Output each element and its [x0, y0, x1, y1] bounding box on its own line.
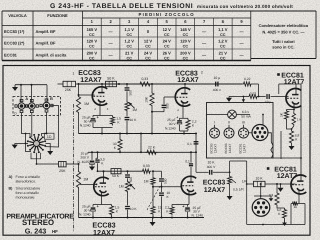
capacitor 10uF 200V ch2 — [77, 152, 98, 171]
wire selector output — [36, 163, 59, 165]
label socket III — [238, 143, 246, 153]
capacitor 25uF 30V V2 — [165, 116, 182, 131]
wire box B+ link — [273, 157, 302, 159]
schematic frame — [3, 66, 310, 236]
resistor level 0.5 ch2 — [228, 175, 245, 191]
col127 ch2 cap500 — [125, 171, 133, 182]
wire plate V2 — [184, 83, 186, 88]
wire cathode V1 bottom — [93, 128, 113, 134]
resistor 6.8K ch2 — [277, 208, 287, 220]
resistor 2.2K V4 — [165, 205, 174, 216]
wire cathode V1 — [93, 105, 113, 116]
wire heater right — [280, 131, 282, 159]
resistor 1M ch2 leak — [144, 171, 155, 186]
resistor 1.5K V3 — [109, 205, 119, 217]
capacitor 10K ch2 — [125, 207, 137, 218]
ground input bus — [12, 85, 18, 91]
resistor 1M grid V3 — [76, 163, 88, 189]
wire switch lower web — [31, 153, 41, 159]
connector J1 — [15, 99, 28, 112]
resistor 0.33 ch1 — [139, 77, 152, 86]
tube V4 triode ECC83d — [181, 176, 196, 194]
capacitor 0.1 x196 — [187, 133, 198, 153]
wire J3 to switch — [42, 112, 48, 136]
wire grid bus V6 — [247, 183, 254, 185]
capacitor 10K out ch2 — [159, 187, 170, 218]
wire 10K to coupling — [151, 111, 164, 113]
resistor 10K plate V2 — [144, 84, 154, 107]
label V1 ECC83 12AX7 — [73, 70, 102, 84]
table grid — [2, 11, 316, 61]
label 1R out — [242, 179, 248, 183]
resistor 25K input 1 — [58, 81, 76, 92]
wire coupling corner ch2 — [153, 171, 162, 178]
resistor 10K grid V6 — [254, 177, 266, 187]
wire 1M V1 down — [78, 114, 80, 134]
resistor 50K plate V3 — [111, 169, 121, 178]
resistor 0.22 ch1 a — [242, 77, 252, 86]
resistor 0.22 ch1 b — [248, 91, 259, 98]
label 1D — [45, 133, 55, 139]
node bus x152 — [151, 83, 153, 85]
capacitor 10u coupling V5 — [265, 94, 271, 104]
wire x141 corner — [140, 133, 142, 153]
tube V5 triode ECC81a — [286, 89, 301, 108]
wire grid V4 — [153, 186, 182, 188]
tube V2 triode ECC83b — [175, 88, 190, 112]
wire 1k down loop — [290, 204, 292, 225]
wire right vertical supply — [300, 84, 302, 175]
resistor 33K decoupling — [113, 134, 122, 153]
wire DIN drop — [254, 184, 273, 201]
table data rows — [4, 27, 244, 61]
ground mid right — [278, 184, 284, 192]
capacitor 500 ch1 — [125, 88, 133, 96]
octal power socket — [252, 125, 268, 141]
resistor 1k cath V6 — [291, 201, 299, 209]
rotary switch S1 — [27, 134, 46, 153]
connector J2 — [25, 99, 38, 112]
ground bus lower — [79, 217, 205, 219]
socket I — [210, 121, 220, 138]
wire loop right — [299, 204, 305, 225]
label V4 ECC83 12AX7 — [203, 179, 231, 194]
resistor 22K ch2 — [146, 145, 158, 154]
wire loop bottom — [247, 224, 305, 226]
wire col127 b — [126, 112, 128, 116]
wire 25K to grid node — [76, 83, 80, 95]
wire selector output b — [66, 163, 78, 165]
tube V1 triode ECC83a — [92, 87, 108, 111]
wire J3 right branch — [46, 106, 59, 148]
capacitor 500 coupling ch2 — [159, 178, 167, 186]
ground level res — [227, 186, 233, 201]
wire bus corner right — [253, 84, 259, 97]
ground 6.8K ch2 — [282, 220, 287, 227]
note B — [9, 187, 41, 200]
potentiometer gang dashed — [147, 186, 160, 210]
label V2 ECC83 12AX7 — [175, 71, 203, 85]
wire drop to connector A — [20, 85, 22, 102]
title PREAMPLIFICATORE — [6, 213, 74, 220]
label D input — [14, 112, 17, 116]
wire plate V4 up — [185, 152, 193, 176]
wire 10K down — [151, 107, 153, 134]
wire heater feed arrow — [242, 97, 245, 103]
capacitor 25uF 30V V3 — [79, 203, 100, 217]
wire plate drop left — [278, 84, 280, 94]
resistor 0.33 ch2 — [141, 164, 151, 173]
node input 2 — [31, 84, 33, 86]
socket III — [239, 121, 249, 138]
wire cathode V2 — [180, 107, 189, 119]
wire out ch2 b — [213, 171, 230, 173]
label V5 ECC81 12AT7 — [277, 72, 304, 86]
wire cathode V4 — [172, 195, 189, 205]
shield dash-dot line — [73, 104, 75, 232]
node input 1 — [20, 84, 22, 86]
lamp 6.3V 50mA — [228, 110, 237, 119]
wire J1 to switch — [22, 113, 31, 136]
power cable squiggle — [268, 133, 273, 158]
resistor 1K b V5 — [292, 110, 301, 126]
wire out left vertical — [246, 161, 248, 225]
node x153 ch2 — [152, 170, 154, 172]
node bus x127 — [126, 83, 128, 85]
wire 1M V3 down — [78, 189, 80, 218]
connector J3 — [40, 99, 53, 112]
potentiometer 1M volume ch1 — [125, 101, 137, 113]
capacitor 25uF 50V V1 — [80, 114, 100, 127]
wire x196 down — [195, 151, 197, 172]
note A — [9, 175, 40, 184]
wire 10K V6 to grid — [260, 183, 296, 185]
capacitor 25uF 30V V4 — [182, 205, 203, 218]
wire out top link — [230, 160, 247, 162]
resistor 15K ch2 — [151, 205, 162, 215]
tube V6 triode ECC81b — [291, 175, 306, 194]
wire lamp right — [236, 114, 250, 116]
label socket I — [209, 143, 217, 153]
wire lamp left — [207, 114, 228, 116]
label V3 ECC83 12AX7 — [92, 220, 115, 236]
capacitor 10uF 400V — [213, 76, 221, 92]
label B — [50, 97, 53, 101]
wire lamp to octal top — [262, 114, 264, 125]
resistor 6.8K ch1 — [289, 130, 299, 145]
ground switch right — [47, 151, 53, 155]
wire cathode V2 bottom — [180, 131, 189, 134]
wire col127 ch2 down — [127, 193, 129, 205]
tube V3 triode ECC83c — [94, 177, 109, 195]
wire 1M to 6.8K ch2 — [277, 207, 285, 209]
shield dashed box inputs — [13, 97, 61, 116]
wire col127 c — [126, 121, 128, 134]
label V6 ECC81 12AT7 — [267, 166, 298, 180]
wire plate bus V5 — [279, 84, 301, 89]
resistor 1M V6 — [268, 184, 279, 207]
wire mid bus ch1 — [79, 133, 197, 135]
wire switch left contact — [15, 143, 28, 145]
wire out ch2 a — [196, 171, 209, 173]
ground 6.8K ch1 — [289, 145, 295, 151]
wire drop to connector B — [31, 85, 33, 102]
socket II — [224, 121, 234, 138]
wire 1.5K V3 down — [111, 216, 113, 218]
power supply box — [207, 103, 274, 159]
wire switch web left — [25, 133, 31, 152]
wire level corner — [229, 161, 231, 175]
wire drop to connector C — [46, 85, 48, 101]
table headers — [8, 12, 243, 24]
capacitor 10K 400V — [207, 160, 216, 174]
wire plate V1 — [101, 84, 103, 87]
wire join cath Rs — [287, 121, 294, 130]
resistor 2.2K V2 — [186, 119, 197, 131]
potentiometer 1M volume ch2 — [119, 180, 135, 193]
resistor 1.5K V1 — [110, 116, 121, 126]
resistor 1K cathode V5 — [279, 110, 288, 121]
wire cathode V6 — [298, 194, 300, 204]
wire input top bus — [15, 84, 47, 86]
ground switch left — [12, 144, 18, 149]
capacitor 500 coupling ch1 — [162, 97, 170, 112]
wire cathode V5 — [287, 106, 295, 110]
wire top bus ch1 — [79, 83, 243, 85]
DIN output socket — [252, 199, 270, 217]
wire mid bus ch2 — [88, 151, 196, 153]
wire cathode V3 — [93, 196, 112, 205]
wire hf bus — [229, 96, 289, 98]
ground lower bus — [150, 218, 156, 227]
capacitor 3.3K ch2 — [95, 152, 104, 171]
ground hf bus end — [226, 97, 232, 102]
label lamp — [241, 110, 251, 118]
wire grid V3 — [80, 184, 97, 186]
wire sockets to octal — [249, 132, 253, 134]
wire switch right contact — [46, 144, 51, 152]
wire plate V3 lead — [103, 171, 105, 177]
resistor 1M grid V1 — [76, 95, 89, 114]
wire grid tube V2 — [164, 96, 176, 98]
wire switch bottom — [36, 153, 38, 164]
label socket II — [224, 143, 232, 153]
wire col127 a — [126, 91, 128, 100]
table note — [259, 23, 309, 50]
label A — [25, 97, 28, 101]
wire 1M ch2 down — [152, 186, 154, 205]
wire J2 to switch — [31, 113, 33, 137]
node bus x119 — [118, 83, 120, 85]
capacitor 10K ch1 — [125, 118, 138, 122]
title STEREO — [22, 218, 54, 227]
wire plate bus V3 — [97, 170, 141, 172]
resistor 50K plate V1 — [106, 76, 117, 86]
wire col127 top — [126, 84, 128, 87]
wire grid tube V1 — [78, 94, 95, 96]
wire 15K down — [152, 216, 154, 218]
resistor 25K input 2 — [59, 162, 67, 173]
table title — [50, 3, 293, 10]
title G 243 HF — [25, 227, 58, 236]
